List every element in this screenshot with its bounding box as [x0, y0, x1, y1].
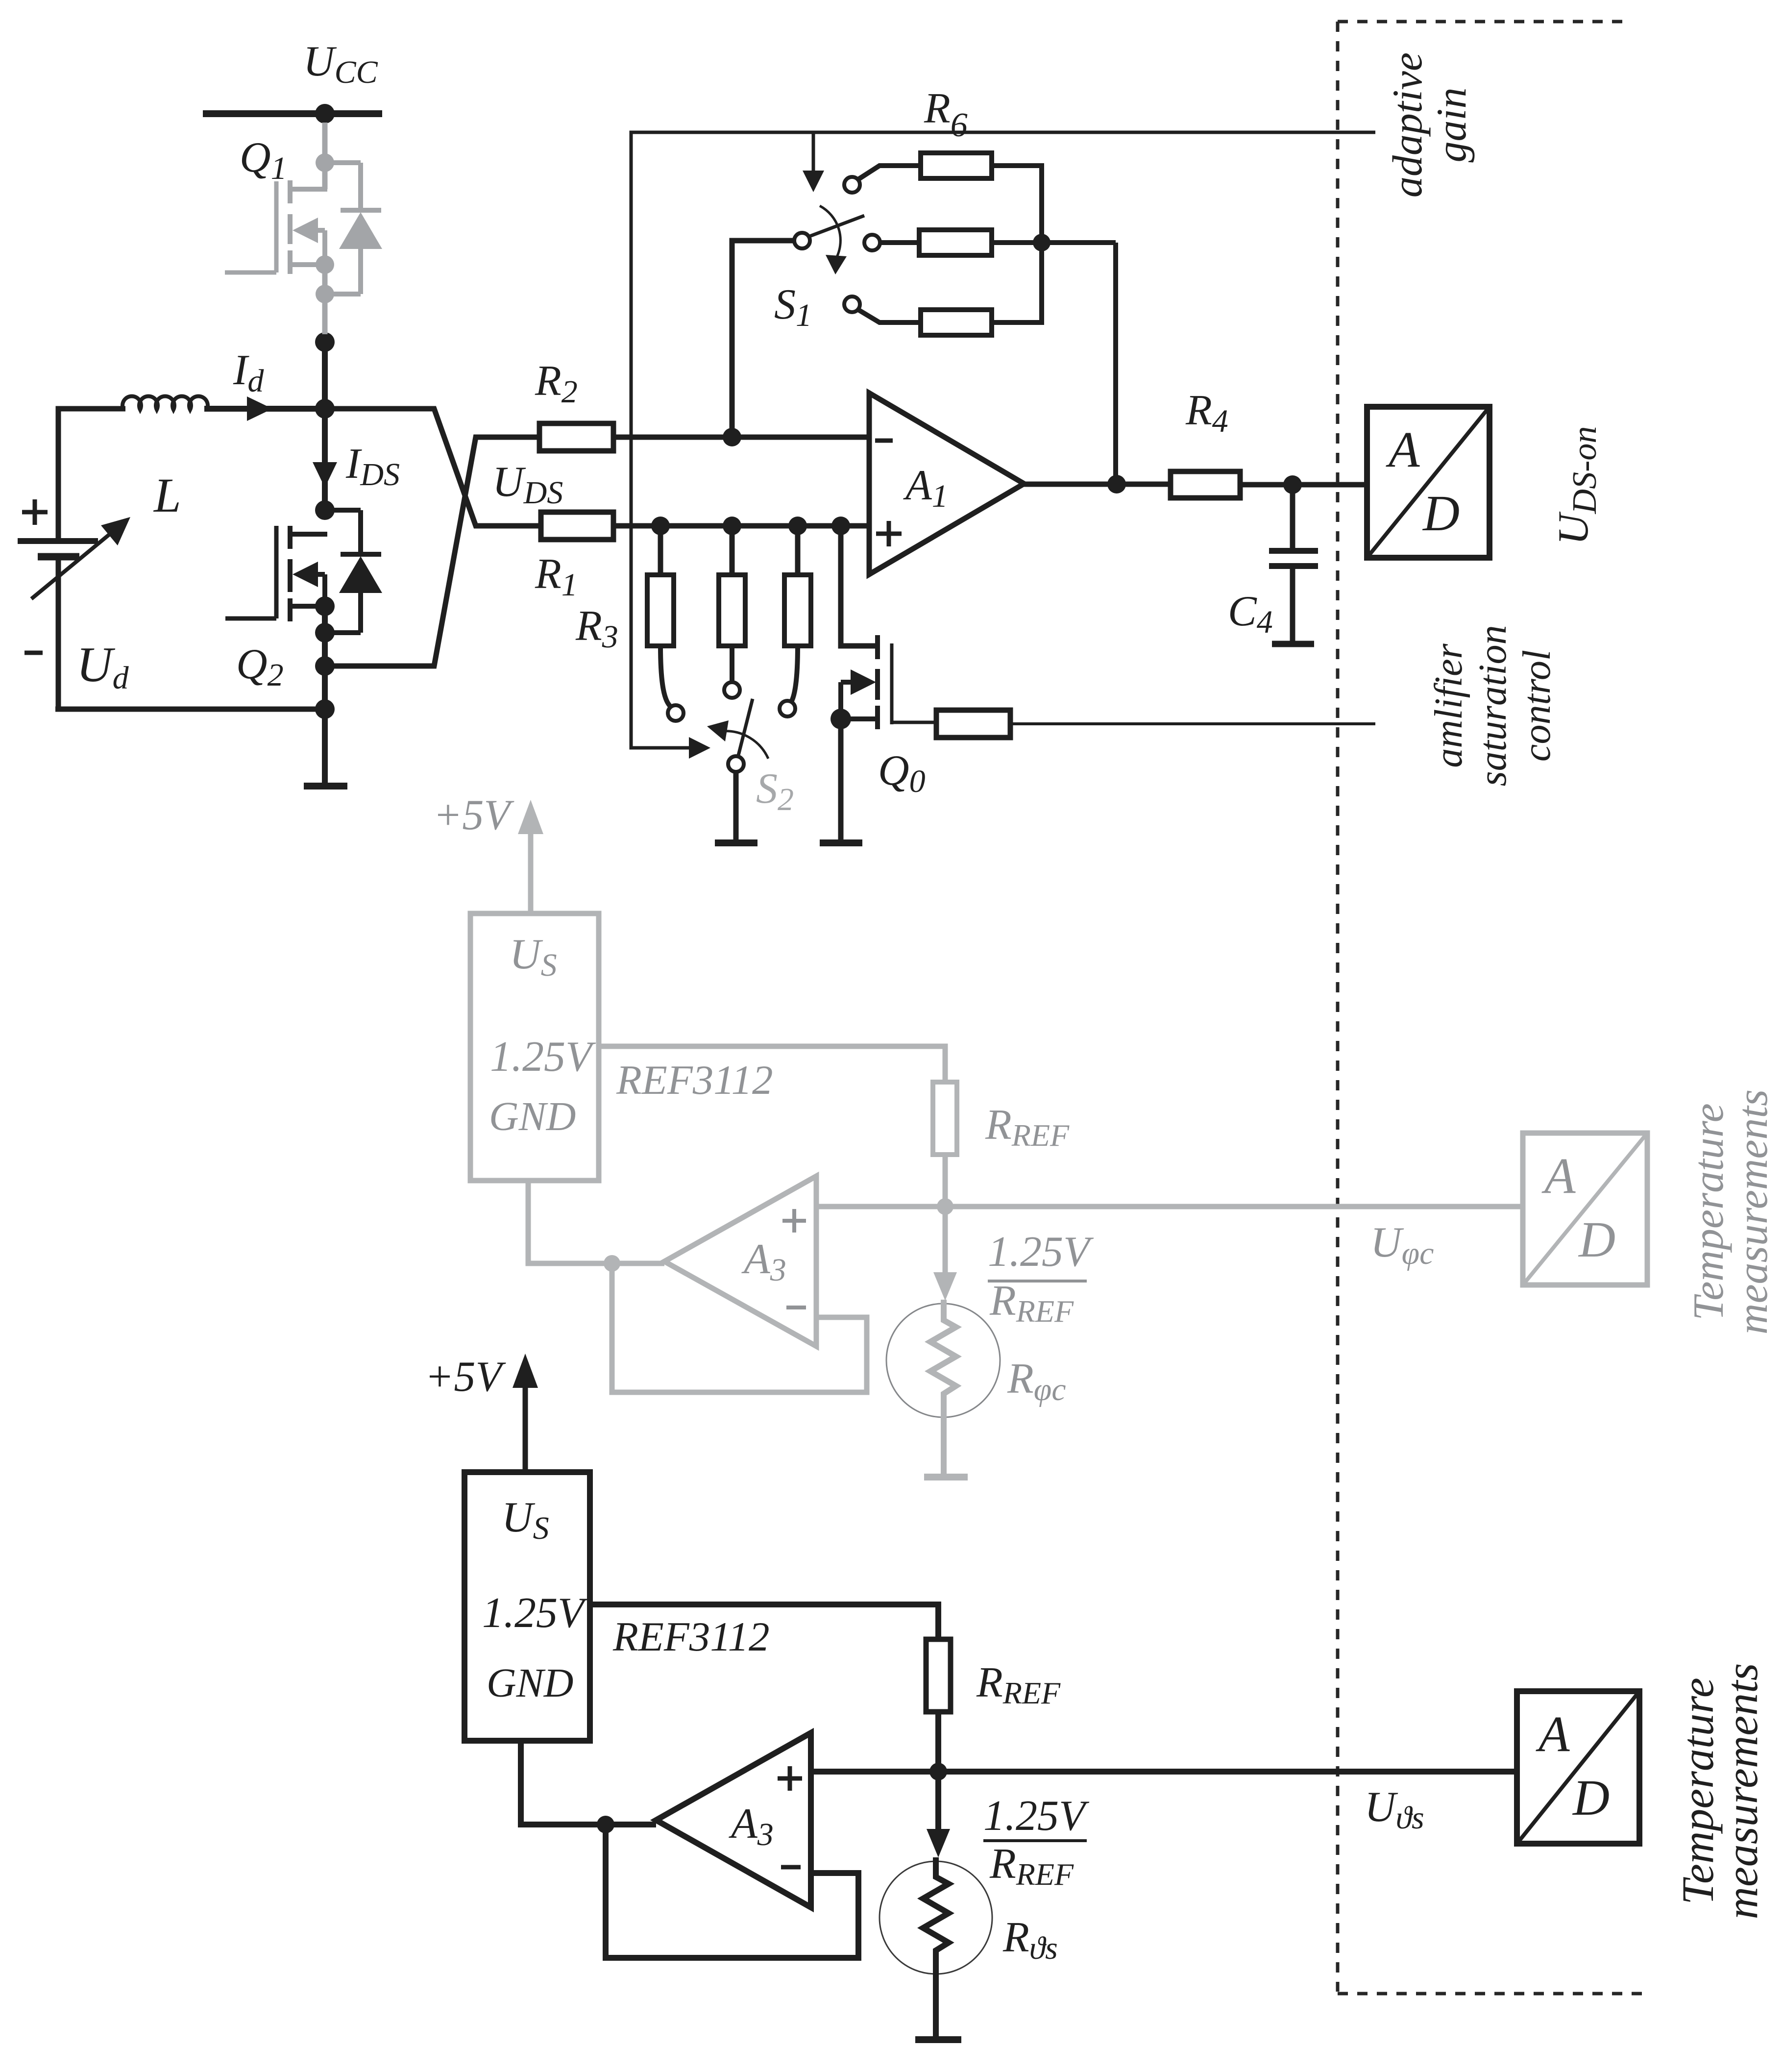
- node Q0 drain junction: [831, 517, 850, 535]
- arrowhead of variable-source arrow: [101, 517, 130, 545]
- AD converter box temperature: [1517, 1691, 1639, 1844]
- arrowhead control to S2: [689, 737, 710, 759]
- wire non-inverting rail R1 to A1: [613, 523, 869, 529]
- svg-text:+5V: +5V: [425, 1353, 506, 1401]
- node Id junction: [315, 399, 335, 419]
- AD diagonal: [1367, 407, 1490, 558]
- S1 pole contact: [794, 233, 810, 248]
- S1 contact a: [844, 177, 860, 193]
- Q1 body arrow (grey): [293, 218, 318, 243]
- resistor RREF: [926, 1639, 951, 1712]
- thermistor Rtheta-s zigzag: [923, 1857, 949, 1973]
- A1 plus mark: [876, 521, 902, 546]
- node A3 output junction: [597, 1816, 614, 1833]
- wire battery minus down to return: [56, 557, 61, 712]
- dashed boundary bottom: [1338, 1992, 1644, 1996]
- svg-text:D: D: [1422, 485, 1460, 542]
- dashed boundary vertical: [1336, 22, 1340, 1992]
- A3 plus mark: [778, 1766, 802, 1791]
- node A1 output junction: [1107, 475, 1126, 493]
- S1 lever: [808, 216, 864, 237]
- node Q0 source junction: [830, 709, 851, 729]
- wire Uds sense crossing: drain side to R1: [325, 409, 541, 526]
- label adaptive gain (rotated): [1384, 52, 1475, 197]
- transistor Q2: [225, 510, 381, 633]
- ground below Q2: [304, 783, 347, 789]
- ground below C4: [1272, 641, 1314, 647]
- wire RREF to junction: [935, 1712, 941, 1772]
- wire thermistor to ground: [933, 1973, 939, 2037]
- node R3a junction: [651, 517, 670, 535]
- resistor Q0 gate: [936, 710, 1010, 738]
- node Q1 drain dot (grey): [316, 153, 334, 172]
- S1 arc arrowhead: [826, 255, 847, 274]
- node Q1 source dot (grey): [316, 255, 334, 274]
- svg-text:D: D: [1578, 1211, 1615, 1268]
- inductor L: [122, 396, 208, 410]
- wire 1.25V to RREF (grey): [599, 1046, 945, 1082]
- +5V arrow: [523, 1387, 528, 1472]
- wire A3 output to GND pin: [521, 1741, 656, 1825]
- arrow Id on wire: [247, 396, 272, 421]
- thermistor Rtheta-s circle: [879, 1861, 992, 1974]
- wire inverting rail R2 to A1: [613, 435, 869, 440]
- wire S1 pole riser from inverting rail: [732, 241, 794, 437]
- capacitor C4: [1269, 485, 1318, 641]
- S2 pole contact: [728, 756, 744, 772]
- node R3b junction: [723, 517, 741, 535]
- node A3 output junction (grey): [604, 1255, 620, 1272]
- svg-text:1.25V: 1.25V: [490, 1033, 596, 1081]
- REF3112 block (grey): [470, 913, 599, 1181]
- R3 bottom leads to contacts: [660, 646, 798, 707]
- Q0 arrow: [851, 669, 876, 695]
- dashed boundary top: [1338, 20, 1626, 24]
- svg-text:GND: GND: [489, 1094, 576, 1139]
- svg-text:1.25V: 1.25V: [983, 1792, 1090, 1840]
- node Q2 source dot: [315, 596, 335, 616]
- current arrow below junction: [935, 1772, 941, 1832]
- wire Q2 source chain down to ground: [322, 606, 328, 783]
- svg-text:1.25V: 1.25V: [988, 1228, 1094, 1276]
- svg-text:control: control: [1515, 650, 1559, 762]
- switch S1 selectable gain resistors: [857, 166, 1116, 484]
- wire drain node to Id junction: [322, 342, 328, 411]
- svg-text:Temperature: Temperature: [1673, 1677, 1723, 1904]
- S2 action arc: [723, 731, 768, 759]
- S2 arc arrowhead: [707, 720, 729, 741]
- svg-text:adaptive: adaptive: [1384, 52, 1431, 197]
- resistor R3c: [784, 575, 811, 646]
- node RREF junction (grey): [937, 1198, 953, 1215]
- label amlifier saturation control (rotated): [1427, 625, 1559, 787]
- op-amp A1: [869, 393, 1024, 574]
- svg-text:saturation: saturation: [1471, 625, 1514, 787]
- wire bottom return to Q2 source node: [55, 707, 325, 712]
- wire A3 output to GND pin (grey): [528, 1181, 664, 1263]
- Q2 body diode triangle: [339, 556, 382, 593]
- wire S2 pole to ground: [733, 771, 739, 840]
- arrow IDS on wire: [313, 462, 337, 488]
- svg-text:amlifier: amlifier: [1427, 643, 1470, 767]
- Ucc supply rail: [203, 110, 382, 117]
- svg-text:gain: gain: [1428, 88, 1475, 163]
- op-amp A3 (grey, mirrored): [664, 1176, 816, 1346]
- wire noninverting rail to AD (grey): [816, 1204, 1523, 1209]
- svg-text:1.25V: 1.25V: [482, 1589, 588, 1637]
- node S1 riser junction: [723, 428, 741, 446]
- resistor R3a: [647, 575, 674, 646]
- svg-text:measurements: measurements: [1729, 1089, 1777, 1334]
- svg-text:Temperature: Temperature: [1685, 1103, 1733, 1320]
- wire adaptive-gain control net R6: [631, 132, 1375, 748]
- resistor R4: [1171, 471, 1240, 498]
- resistor R6b: [919, 230, 992, 255]
- transistor Q1 (grey): [225, 123, 381, 334]
- A3 minus mark: [781, 1865, 801, 1870]
- node Ucc junction: [315, 104, 335, 123]
- wire battery top to inductor: [58, 409, 125, 541]
- svg-text:D: D: [1572, 1770, 1610, 1826]
- A3 feedback loop: [606, 1825, 858, 1958]
- resistor R1: [541, 512, 613, 540]
- S1 action arc: [820, 206, 840, 260]
- node Q2 diode return dot: [315, 623, 335, 642]
- wire Id junction down to Q2 drain: [322, 409, 328, 510]
- A3 plus mark (grey): [782, 1209, 806, 1233]
- svg-text:GND: GND: [487, 1660, 573, 1706]
- label Temperature measurements (grey, rotated): [1685, 1089, 1777, 1334]
- node Q1 diode return dot (grey): [316, 285, 334, 303]
- A3 feedback loop (grey): [612, 1263, 867, 1392]
- S2 lever: [738, 699, 753, 757]
- node RREF junction: [929, 1763, 947, 1780]
- resistor bank R3 leads: [660, 526, 798, 575]
- svg-text:A: A: [1386, 421, 1420, 478]
- arrowhead control to S1: [803, 171, 824, 192]
- wire RREF to junction (grey): [943, 1155, 948, 1207]
- wire inductor to Id junction: [204, 406, 325, 412]
- Q1 body diode triangle (grey): [339, 212, 382, 249]
- Q2 body arrow: [293, 562, 318, 587]
- thermistor Rphi-c circle (grey): [886, 1304, 1000, 1417]
- transistor Q0: [841, 526, 936, 840]
- label Temperature measurements (rotated): [1673, 1663, 1767, 1920]
- node Uds sense junction: [315, 656, 335, 676]
- node R6 bank common junction: [1033, 234, 1050, 251]
- svg-text:L: L: [153, 468, 181, 522]
- wire noninverting rail to AD: [811, 1769, 1517, 1775]
- svg-text:measurements: measurements: [1717, 1663, 1767, 1920]
- thermistor Rphi-c zigzag (grey): [930, 1300, 956, 1474]
- svg-text:+5V: +5V: [433, 791, 514, 839]
- current arrow below junction (grey): [943, 1207, 948, 1275]
- S1 contact c: [844, 296, 860, 312]
- svg-text:A: A: [1536, 1706, 1570, 1762]
- REF3112 block: [464, 1472, 590, 1741]
- wire saturation control: [1010, 722, 1375, 725]
- wire 1.25V to RREF: [590, 1604, 938, 1639]
- resistor R6c: [921, 310, 992, 335]
- AD converter box Uds-on: [1367, 407, 1490, 558]
- node Q2 drain dot: [315, 500, 335, 520]
- A3 minus mark (grey): [786, 1306, 806, 1309]
- resistor RREF (grey): [933, 1082, 957, 1155]
- node C4 junction: [1283, 475, 1302, 494]
- node R3c junction: [788, 517, 807, 535]
- S2 contact a: [668, 705, 684, 721]
- ground below Rtheta-s: [915, 2036, 961, 2043]
- svg-text:REF3112: REF3112: [612, 1614, 769, 1660]
- resistor R2: [539, 423, 613, 451]
- ground below Q0: [820, 839, 862, 846]
- op-amp A3 (mirrored): [656, 1733, 811, 1907]
- wire A1 output: [1024, 482, 1171, 487]
- svg-text:A: A: [1541, 1148, 1576, 1204]
- S1 contact b: [864, 235, 880, 250]
- S2 contact c: [780, 701, 795, 716]
- S2 contact b: [724, 682, 740, 698]
- A1 minus mark: [875, 439, 893, 443]
- node bottom return junction: [315, 699, 335, 719]
- voltage source Ud plates: [18, 499, 119, 653]
- wire R4 to AD converter: [1240, 482, 1367, 488]
- ground below Rphi-c (grey): [924, 1474, 968, 1480]
- resistor R3b: [719, 575, 745, 646]
- +5V arrow (grey): [528, 833, 534, 913]
- svg-text:REF3112: REF3112: [616, 1057, 773, 1103]
- ground below S2: [715, 839, 757, 846]
- node drain of Q2 string (black dot below Q1): [315, 332, 335, 352]
- resistor R6a: [921, 153, 992, 178]
- AD converter box temperature (grey): [1523, 1133, 1647, 1285]
- wire Uds sense crossing: source side to R2: [325, 437, 539, 666]
